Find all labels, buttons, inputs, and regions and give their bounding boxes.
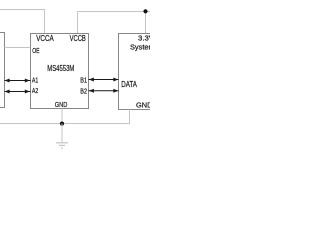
svg-text:VCCB: VCCB <box>70 34 86 43</box>
ground <box>56 124 68 149</box>
label System (system box line 2) <box>130 43 155 52</box>
pin label DATA <box>121 80 137 89</box>
pin label GND (3.3V system) <box>136 100 152 109</box>
svg-text:DATA: DATA <box>121 80 137 89</box>
pin label B2 <box>80 86 87 95</box>
pin label OE <box>32 46 39 55</box>
op chip U1 MS4553M box <box>31 34 89 109</box>
part value MS4553M <box>47 64 74 73</box>
svg-text:VCCA: VCCA <box>36 34 54 43</box>
svg-text:B2: B2 <box>80 86 87 95</box>
junction GND node <box>60 122 64 126</box>
label 3.3V (system box line 1) <box>138 34 154 43</box>
wire VCCA supply (left rail to VCCA pin) <box>0 10 45 34</box>
wire GND pin stub <box>61 109 63 124</box>
svg-text:A1: A1 <box>32 75 38 84</box>
svg-text:System: System <box>130 43 150 52</box>
1.8V system controller box (cut off at left) <box>0 33 5 108</box>
svg-text:OE: OE <box>32 46 39 55</box>
pin label B1 <box>80 76 87 85</box>
pin label VCCA <box>36 34 54 43</box>
pin label A1 <box>32 75 38 84</box>
wire VCCB supply (VCCB pin up and right to edge) <box>78 12 151 34</box>
3.3V system box (cut off at right) <box>119 34 169 110</box>
wire B1 bidirectional arrow <box>89 78 119 82</box>
wire 3.3V system VCC stub <box>145 12 147 34</box>
svg-text:A2: A2 <box>32 86 38 95</box>
wire A2 bidirectional arrow <box>5 90 31 94</box>
svg-text:MS4553M: MS4553M <box>47 64 74 73</box>
wire OE <box>5 47 31 49</box>
svg-text:GND: GND <box>136 100 150 109</box>
wire A1 bidirectional arrow <box>5 79 31 83</box>
pin label A2 <box>32 86 38 95</box>
pin label GND (MS4553M) <box>55 100 68 109</box>
wire GND rail <box>0 110 130 124</box>
svg-text:B1: B1 <box>80 76 87 85</box>
svg-text:3.3V: 3.3V <box>138 34 150 43</box>
junction VCCB / 3.3V system supply <box>143 9 147 13</box>
wire B2 bidirectional arrow <box>89 89 119 93</box>
pin label VCCB <box>70 34 86 43</box>
svg-text:GND: GND <box>55 100 68 109</box>
